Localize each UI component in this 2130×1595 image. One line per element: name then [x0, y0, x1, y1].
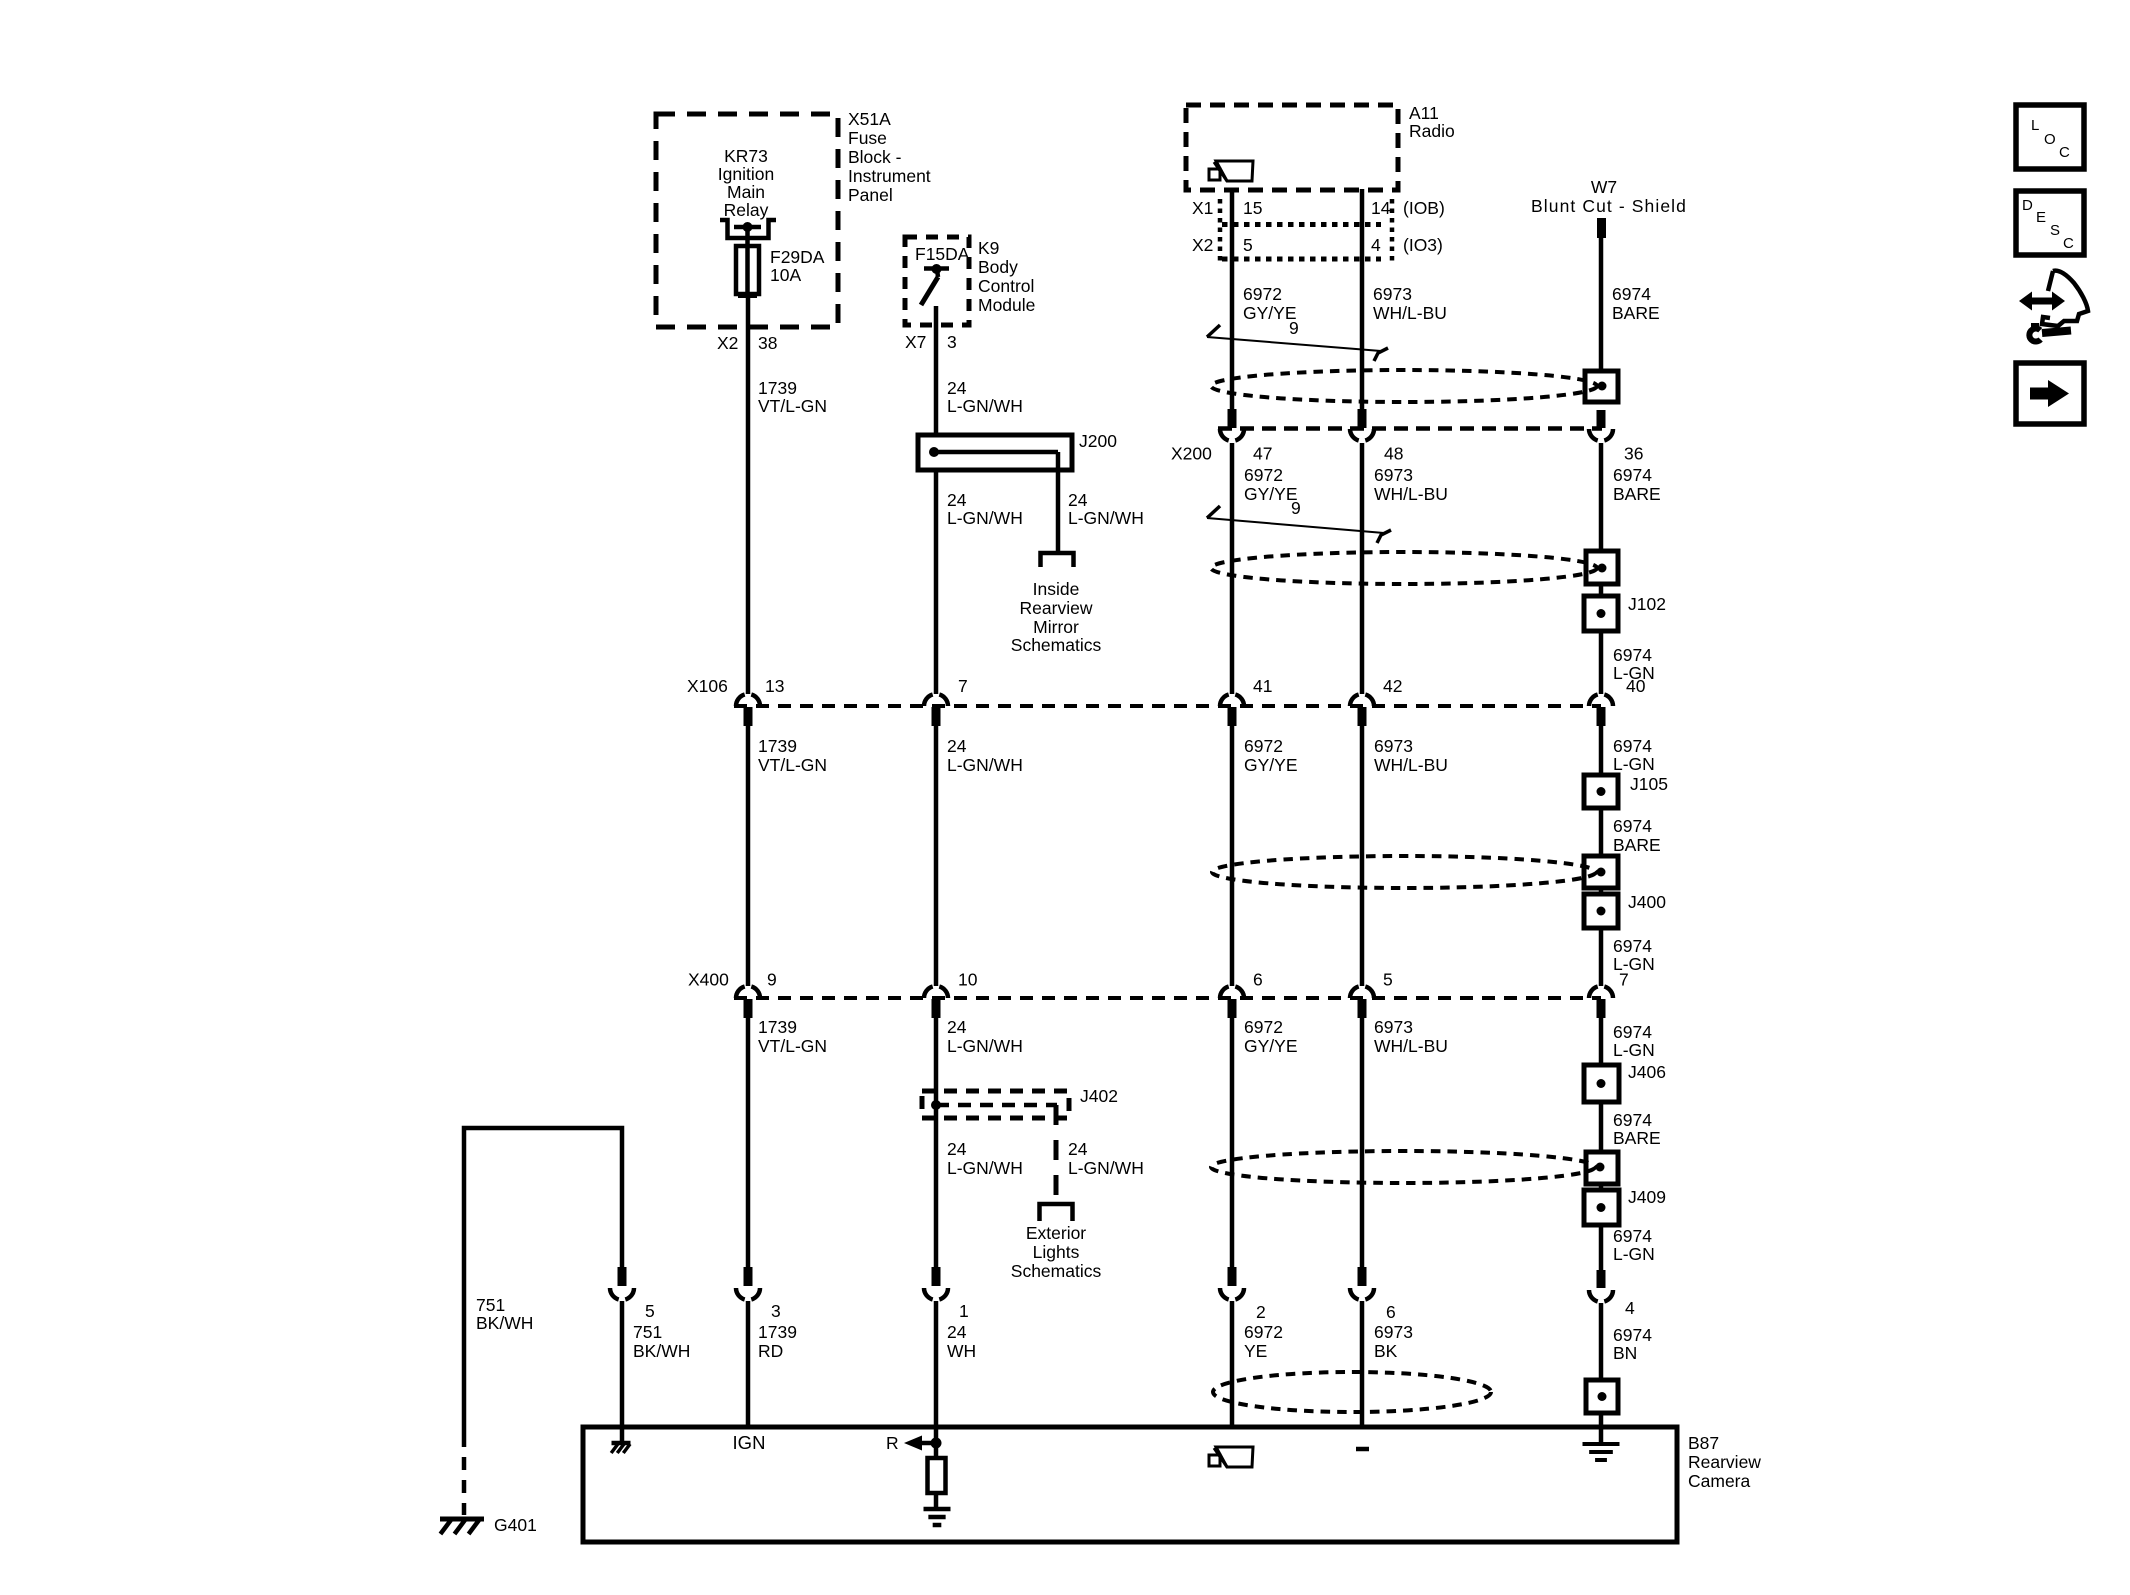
camera pin 1 connector [924, 1267, 948, 1427]
label wire 6974 L-GN (bottom) [1613, 1226, 1655, 1264]
wire resistor to ground [934, 1493, 939, 1509]
label wire 6972 YE [1244, 1322, 1283, 1361]
fuse F29DA 10A [736, 246, 759, 296]
label wire 24 WH [947, 1322, 976, 1361]
svg-text:J409: J409 [1628, 1187, 1666, 1207]
svg-text:36: 36 [1624, 444, 1643, 464]
earth ground below resistor [924, 1507, 951, 1512]
svg-text:24: 24 [947, 378, 967, 398]
wire 24 X400 to J402 [934, 1018, 939, 1267]
wire 6973 X400 to camera [1360, 1018, 1365, 1267]
svg-text:9: 9 [767, 970, 777, 990]
svg-text:WH/L-BU: WH/L-BU [1374, 755, 1448, 775]
labels X106 pin numbers [765, 676, 1646, 696]
wire J400 to X400 [1599, 928, 1604, 986]
svg-text:C: C [2059, 144, 2070, 161]
label A11 Radio [1409, 103, 1455, 141]
svg-text:BARE: BARE [1613, 835, 1661, 855]
wire 6972 radio to X200 [1230, 189, 1235, 410]
label F29DA 10A [770, 247, 825, 285]
svg-text:WH: WH [947, 1341, 976, 1361]
label wire 24 L-GN/WH (J402 left) [947, 1139, 1023, 1178]
svg-text:C: C [2063, 235, 2074, 252]
svg-text:6974: 6974 [1613, 465, 1652, 485]
wire box5 to J409 [1599, 1184, 1604, 1190]
label wire 6972 GY/YE (top) [1243, 284, 1297, 323]
wire box3 to J400 [1599, 888, 1604, 894]
icon adjust (wrench) [2029, 323, 2071, 342]
svg-text:GY/YE: GY/YE [1244, 484, 1298, 504]
svg-text:WH/L-BU: WH/L-BU [1373, 303, 1447, 323]
svg-text:Schematics: Schematics [1011, 1261, 1102, 1281]
svg-text:6974: 6974 [1612, 284, 1651, 304]
label Inside Rearview Mirror Schematics [1011, 579, 1102, 655]
twisted pair symbol 9 (lower) [1207, 506, 1391, 543]
svg-text:13: 13 [765, 676, 784, 696]
splice J102 [1584, 596, 1618, 631]
labels X400 pin numbers [767, 970, 1629, 990]
X400 pin 5 [1350, 987, 1374, 1019]
minus terminal [1356, 1447, 1369, 1452]
chassis ground pin 5 inside camera [611, 1427, 630, 1453]
label KR73 Ignition Main Relay [718, 146, 774, 220]
svg-text:2: 2 [1256, 1302, 1266, 1322]
svg-text:Schematics: Schematics [1011, 635, 1102, 655]
camera pin 5 connector [610, 1267, 634, 1427]
connector row X400 dashed line [734, 996, 1601, 1000]
svg-text:1: 1 [959, 1301, 969, 1321]
dashed branch J402 to exterior lights [1054, 1105, 1059, 1204]
svg-text:3: 3 [771, 1301, 781, 1321]
svg-text:751: 751 [633, 1322, 662, 1342]
ground G401 [440, 1517, 484, 1522]
X200 pin 36 (6974) [1589, 410, 1613, 441]
svg-text:15: 15 [1243, 198, 1262, 218]
svg-text:J102: J102 [1628, 594, 1666, 614]
svg-text:X106: X106 [687, 676, 728, 696]
svg-text:7: 7 [1619, 970, 1629, 990]
svg-text:G401: G401 [494, 1515, 537, 1535]
svg-text:Fuse: Fuse [848, 128, 887, 148]
label wire 6973 WH/L-BU (X200) [1374, 465, 1448, 504]
svg-text:9: 9 [1289, 318, 1299, 338]
svg-text:47: 47 [1253, 444, 1272, 464]
twisted pair symbol 9 (upper) [1207, 325, 1388, 361]
icon box arrow [2016, 363, 2084, 424]
shield splice box 3 on W7 [1584, 856, 1618, 888]
svg-text:VT/L-GN: VT/L-GN [758, 396, 827, 416]
wire 6974 X200 down [1599, 443, 1604, 551]
svg-text:(IOB): (IOB) [1403, 198, 1445, 218]
svg-text:GY/YE: GY/YE [1244, 1036, 1298, 1056]
svg-text:4: 4 [1371, 235, 1381, 255]
camera icon in radio [1216, 161, 1253, 181]
R arrow [904, 1436, 942, 1451]
label wire 6974 L-GN (below X106) [1613, 736, 1655, 774]
svg-text:40: 40 [1626, 676, 1646, 696]
svg-text:Main: Main [727, 182, 765, 202]
svg-text:BK/WH: BK/WH [476, 1313, 533, 1333]
svg-text:VT/L-GN: VT/L-GN [758, 755, 827, 775]
svg-text:6973: 6973 [1373, 284, 1412, 304]
svg-text:X400: X400 [688, 970, 729, 990]
svg-text:6974: 6974 [1613, 645, 1652, 665]
label B87 Rearview Camera [1688, 1433, 1761, 1491]
labels X200 pin numbers [1253, 444, 1643, 464]
label wire 6973 BK [1374, 1322, 1413, 1361]
svg-text:24: 24 [1068, 1139, 1088, 1159]
svg-text:6972: 6972 [1244, 736, 1283, 756]
svg-text:Module: Module [978, 295, 1035, 315]
label Exterior Lights Schematics [1011, 1223, 1102, 1281]
label X2 pins 5 / 4 (IO3) [1192, 235, 1443, 255]
svg-text:J105: J105 [1630, 774, 1668, 794]
wire 24 X106 to X400 [934, 726, 939, 986]
wire J409 to camera pin [1599, 1225, 1604, 1270]
X400 pin 7 [1589, 987, 1613, 1019]
label wire 6974 BN [1613, 1325, 1652, 1363]
wire 6974 X106 to J105 [1599, 726, 1604, 775]
svg-text:6974: 6974 [1613, 736, 1652, 756]
rearview camera B87 box [583, 1427, 1677, 1542]
X106 pin 40 [1589, 695, 1613, 727]
wire J102 to X106 [1599, 631, 1604, 694]
wire 6974 W7 to shield splice [1599, 238, 1604, 371]
label wire 6974 BARE (top) [1612, 284, 1660, 323]
label connector X2 pin 38 [717, 333, 777, 353]
svg-text:L-GN: L-GN [1613, 1040, 1655, 1060]
label X51A Fuse Block - Instrument Panel [848, 109, 931, 205]
X200 pin 47 (6972) [1220, 409, 1244, 441]
label wire 24 L-GN/WH (mid) [947, 736, 1023, 775]
svg-text:1739: 1739 [758, 1017, 797, 1037]
svg-text:L-GN/WH: L-GN/WH [1068, 1158, 1144, 1178]
svg-text:O: O [2044, 131, 2056, 148]
svg-text:D: D [2022, 197, 2033, 214]
wire 6973 radio to X200 [1360, 189, 1365, 410]
camera pin 2 connector [1220, 1267, 1244, 1427]
shield splice box 1 on W7 [1585, 371, 1618, 402]
label wire 24 L-GN/WH (top) [947, 378, 1023, 416]
icon box LOC [2016, 105, 2084, 169]
svg-text:L-GN/WH: L-GN/WH [1068, 508, 1144, 528]
label wire 6973 WH/L-BU (mid) [1374, 736, 1448, 775]
svg-text:Exterior: Exterior [1026, 1223, 1086, 1243]
svg-text:6973: 6973 [1374, 1322, 1413, 1342]
svg-text:RD: RD [758, 1341, 783, 1361]
labels camera pin numbers [645, 1298, 1635, 1322]
wire J200 branch to mirror [1056, 470, 1061, 553]
svg-text:6973: 6973 [1374, 736, 1413, 756]
svg-text:BARE: BARE [1613, 1128, 1661, 1148]
svg-text:1739: 1739 [758, 1322, 797, 1342]
svg-text:6: 6 [1386, 1302, 1396, 1322]
X106 pin 13 [736, 695, 760, 727]
splice J409 [1584, 1190, 1619, 1225]
svg-text:6973: 6973 [1374, 1017, 1413, 1037]
icon adjust (outline) [2042, 271, 2088, 326]
svg-text:KR73: KR73 [724, 146, 768, 166]
svg-text:Camera: Camera [1688, 1471, 1751, 1491]
svg-text:6: 6 [1253, 970, 1263, 990]
wire W7 box2 to J102 [1599, 584, 1604, 596]
label X1 pins 15 / 14 (IOB) [1192, 198, 1445, 218]
X400 pin 10 [924, 987, 948, 1019]
X200 pin 48 (6973) [1350, 409, 1374, 441]
label wire 1739 RD [758, 1322, 797, 1361]
svg-text:(IO3): (IO3) [1403, 235, 1443, 255]
svg-text:Control: Control [978, 276, 1034, 296]
camera pin 3 connector [736, 1267, 760, 1427]
svg-text:5: 5 [645, 1301, 655, 1321]
svg-text:6974: 6974 [1613, 936, 1652, 956]
label wire 1739 VT/L-GN (lower) [758, 1017, 827, 1056]
wire 751 loop to camera [464, 1128, 622, 1434]
svg-text:BK/WH: BK/WH [633, 1341, 690, 1361]
svg-text:L: L [2031, 117, 2039, 134]
X400 pin 6 [1220, 987, 1244, 1019]
svg-text:A11: A11 [1409, 103, 1439, 123]
label wire 6974 L-GN (below X400) [1613, 1022, 1655, 1060]
label wire 6972 GY/YE (X200) [1244, 465, 1298, 504]
svg-text:BARE: BARE [1613, 484, 1661, 504]
svg-text:1739: 1739 [758, 378, 797, 398]
svg-text:R: R [886, 1433, 899, 1453]
svg-text:6974: 6974 [1613, 816, 1652, 836]
svg-text:24: 24 [1068, 490, 1088, 510]
wire 6974 X400 to J406 [1599, 1018, 1604, 1065]
svg-text:F29DA: F29DA [770, 247, 825, 267]
svg-text:X200: X200 [1171, 444, 1212, 464]
svg-text:L-GN/WH: L-GN/WH [947, 396, 1023, 416]
radio A11 dashed box [1186, 105, 1398, 190]
label wire 1739 VT/L-GN (mid) [758, 736, 827, 775]
svg-text:F15DA: F15DA [915, 244, 970, 264]
camera icon inside B87 [1216, 1447, 1253, 1467]
svg-text:6972: 6972 [1244, 465, 1283, 485]
relay KR73 contact symbol [720, 220, 776, 238]
svg-text:6974: 6974 [1613, 1325, 1652, 1345]
svg-text:X1: X1 [1192, 198, 1213, 218]
label wire 6974 BARE (lower) [1613, 1110, 1661, 1148]
shield ellipse 3 [1212, 856, 1596, 888]
shield ellipse 4 [1211, 1151, 1595, 1183]
svg-text:Relay: Relay [724, 200, 769, 220]
label wire 751 BK/WH (left) [476, 1295, 533, 1333]
svg-text:9: 9 [1291, 498, 1301, 518]
svg-text:24: 24 [947, 490, 967, 510]
label wire 6972 GY/YE (mid) [1244, 736, 1298, 775]
splice J400 [1584, 894, 1618, 928]
svg-text:X2: X2 [717, 333, 738, 353]
svg-text:Ignition: Ignition [718, 164, 774, 184]
svg-text:38: 38 [758, 333, 777, 353]
svg-text:7: 7 [958, 676, 968, 696]
svg-text:Blunt Cut - Shield: Blunt Cut - Shield [1531, 196, 1687, 216]
connector X1/X2 dotted separators [1220, 199, 1392, 263]
off-page connector to mirror schematics [1041, 553, 1074, 567]
label wire 24 L-GN/WH (J200 right) [1068, 490, 1144, 528]
svg-text:X2: X2 [1192, 235, 1213, 255]
svg-text:6972: 6972 [1244, 1322, 1283, 1342]
svg-text:24: 24 [947, 1017, 967, 1037]
svg-text:J200: J200 [1079, 431, 1117, 451]
wire 1739 X106 to X400 [746, 726, 751, 986]
connector row X200 dashed line [1218, 426, 1602, 431]
resistor inside camera [928, 1458, 946, 1493]
svg-text:5: 5 [1243, 235, 1253, 255]
label wire 6974 BARE (X200) [1613, 465, 1661, 504]
svg-text:L-GN/WH: L-GN/WH [947, 508, 1023, 528]
svg-text:WH/L-BU: WH/L-BU [1374, 484, 1448, 504]
svg-text:Body: Body [978, 257, 1018, 277]
shield ellipse 2 [1211, 552, 1597, 584]
svg-text:41: 41 [1253, 676, 1272, 696]
svg-text:4: 4 [1625, 1298, 1635, 1318]
label wire 6974 BARE (mid) [1613, 816, 1661, 855]
svg-text:10: 10 [958, 970, 978, 990]
svg-text:Block -: Block - [848, 147, 902, 167]
icon box DESC [2016, 191, 2084, 255]
svg-text:6972: 6972 [1244, 1017, 1283, 1037]
wire J105 to shield box 3 [1599, 808, 1604, 856]
svg-text:Mirror: Mirror [1033, 617, 1079, 637]
wire J200 through [934, 470, 939, 694]
wire 6972 X400 to camera [1230, 1018, 1235, 1267]
svg-text:YE: YE [1244, 1341, 1267, 1361]
svg-text:IGN: IGN [733, 1432, 766, 1453]
shield splice box 5 on W7 [1586, 1152, 1618, 1184]
label wire 6972 GY/YE (lower) [1244, 1017, 1298, 1056]
fuse block X51A dashed box [656, 114, 838, 327]
svg-text:14: 14 [1371, 198, 1391, 218]
svg-text:K9: K9 [978, 238, 999, 258]
svg-text:W7: W7 [1591, 177, 1617, 197]
svg-text:Panel: Panel [848, 185, 893, 205]
svg-text:BK: BK [1374, 1341, 1398, 1361]
shield ellipse 5 (bottom) [1213, 1372, 1491, 1412]
camera pin 4 connector [1589, 1270, 1613, 1380]
wire BCM to J200 [934, 306, 939, 435]
svg-text:10A: 10A [770, 265, 801, 285]
svg-text:L-GN/WH: L-GN/WH [947, 1158, 1023, 1178]
svg-text:S: S [2050, 222, 2060, 239]
splice J105 [1584, 775, 1618, 808]
wire J406 to shield box 5 [1599, 1102, 1604, 1152]
svg-text:24: 24 [947, 1139, 967, 1159]
camera pin 6 connector [1350, 1267, 1374, 1427]
X106 pin 41 [1220, 695, 1244, 727]
svg-text:BN: BN [1613, 1343, 1637, 1363]
label wire 6973 WH/L-BU (lower) [1374, 1017, 1448, 1056]
svg-text:6973: 6973 [1374, 465, 1413, 485]
shield splice box 2 on W7 [1586, 551, 1618, 584]
label wire 751 BK/WH (pin5) [633, 1322, 690, 1361]
splice pack J402 dashed [922, 1091, 1069, 1118]
splice J406 [1584, 1065, 1619, 1102]
svg-text:X7: X7 [905, 332, 926, 352]
wire 1739 X400 to camera [746, 1018, 751, 1267]
off-page connector to exterior lights [1040, 1204, 1073, 1221]
svg-text:Radio: Radio [1409, 121, 1455, 141]
blunt cut end W7 [1597, 218, 1606, 238]
earth ground pin 4 inside camera [1583, 1427, 1620, 1460]
svg-text:B87: B87 [1688, 1433, 1719, 1453]
svg-text:J402: J402 [1080, 1086, 1118, 1106]
BCM K9 dashed box [905, 237, 969, 325]
svg-text:Inside: Inside [1033, 579, 1080, 599]
icon adjust (double arrow) [2019, 292, 2065, 311]
label K9 Body Control Module [978, 238, 1035, 315]
X400 pin 9 [736, 987, 760, 1019]
shield ellipse 1 [1211, 370, 1597, 402]
shield splice box 6 on W7 [1586, 1380, 1618, 1413]
svg-text:E: E [2036, 209, 2046, 226]
svg-text:6974: 6974 [1613, 1110, 1652, 1130]
svg-text:GY/YE: GY/YE [1244, 755, 1298, 775]
wire fuse to X106 [746, 294, 751, 694]
svg-text:6972: 6972 [1243, 284, 1282, 304]
label W7 Blunt Cut - Shield [1531, 177, 1687, 216]
wire 6972 X200 to X106 [1230, 443, 1235, 694]
svg-text:24: 24 [947, 736, 967, 756]
switch F15DA [921, 264, 949, 305]
svg-text:48: 48 [1384, 444, 1403, 464]
svg-text:WH/L-BU: WH/L-BU [1374, 1036, 1448, 1056]
svg-text:Lights: Lights [1033, 1242, 1080, 1262]
svg-text:VT/L-GN: VT/L-GN [758, 1036, 827, 1056]
svg-text:J400: J400 [1628, 892, 1666, 912]
svg-text:3: 3 [947, 332, 957, 352]
wire relay to fuse [745, 227, 750, 246]
svg-text:Instrument: Instrument [848, 166, 931, 186]
svg-text:L-GN: L-GN [1613, 1244, 1655, 1264]
label wire 6974 L-GN (above X400) [1613, 936, 1655, 974]
label wire 1739 VT/L-GN (top) [758, 378, 827, 416]
svg-text:J406: J406 [1628, 1062, 1666, 1082]
svg-text:5: 5 [1383, 970, 1393, 990]
X106 pin 7 [924, 695, 948, 727]
label wire 24 L-GN/WH (J200 left) [947, 490, 1023, 528]
label wire 24 L-GN/WH (J402 right) [1068, 1139, 1144, 1178]
svg-text:1739: 1739 [758, 736, 797, 756]
svg-text:751: 751 [476, 1295, 505, 1315]
svg-text:Rearview: Rearview [1688, 1452, 1761, 1472]
label wire 6973 WH/L-BU (top) [1373, 284, 1447, 323]
wire pin1 inside to junction [934, 1427, 939, 1458]
dashed wire to G401 [462, 1434, 467, 1515]
wire box6 to camera [1599, 1413, 1604, 1427]
wire 6972 X106 to X400 [1230, 726, 1235, 986]
connector row X106 dashed line [734, 704, 1601, 708]
X106 pin 42 [1350, 695, 1374, 727]
wire 6973 X200 to X106 [1360, 443, 1365, 694]
svg-text:6974: 6974 [1613, 1226, 1652, 1246]
svg-text:L-GN: L-GN [1613, 754, 1655, 774]
svg-text:6974: 6974 [1613, 1022, 1652, 1042]
label connector X7 pin 3 [905, 332, 957, 352]
svg-text:L-GN/WH: L-GN/WH [947, 1036, 1023, 1056]
splice pack J200 [918, 435, 1072, 470]
label wire 24 L-GN/WH (lower) [947, 1017, 1023, 1056]
wire 6973 X106 to X400 [1360, 726, 1365, 986]
svg-text:42: 42 [1383, 676, 1402, 696]
svg-text:24: 24 [947, 1322, 967, 1342]
svg-text:L-GN/WH: L-GN/WH [947, 755, 1023, 775]
svg-text:BARE: BARE [1612, 303, 1660, 323]
svg-text:X51A: X51A [848, 109, 891, 129]
svg-text:Rearview: Rearview [1020, 598, 1093, 618]
